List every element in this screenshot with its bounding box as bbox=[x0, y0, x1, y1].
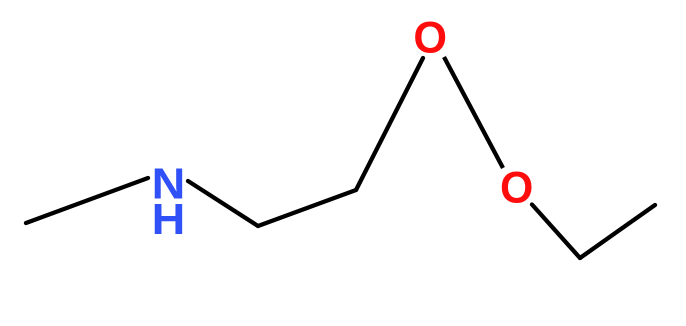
wire: bond C1 to C2 chain bbox=[258, 190, 356, 226]
wire: bond N to C1 bbox=[188, 181, 258, 226]
wire: bond O1 to O2 bbox=[444, 57, 503, 168]
svg-text:H: H bbox=[152, 194, 186, 243]
node H: N-H hydrogen label bbox=[152, 194, 186, 243]
wire: bond CH3 to N (methyl left) bbox=[26, 178, 148, 223]
svg-text:O: O bbox=[500, 163, 533, 213]
svg-text:O: O bbox=[413, 13, 447, 63]
wire: bond C2 up to O1 (steep) bbox=[356, 58, 423, 190]
node N: amine nitrogen label bbox=[152, 159, 186, 208]
wire: bond CH2 to CH3 (ethyl end) bbox=[580, 205, 655, 258]
node O1: carbonyl oxygen label (top) bbox=[413, 13, 447, 63]
node O2: ester oxygen label (right) bbox=[500, 163, 533, 213]
wire: bond O2 to CH2 bbox=[532, 205, 580, 259]
